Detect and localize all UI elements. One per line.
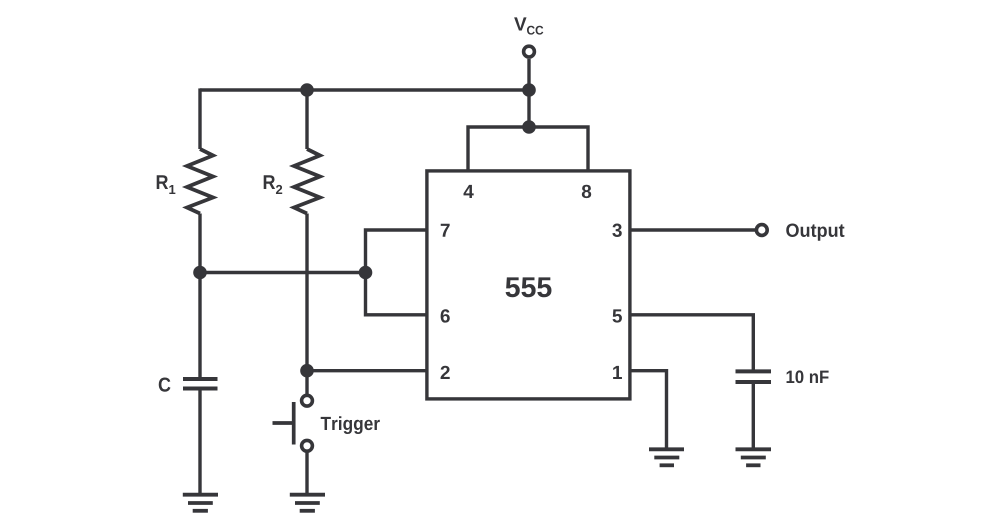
wire C to ground xyxy=(198,391,201,495)
wire node to threshold xyxy=(200,271,366,274)
wire pin3 output xyxy=(630,228,755,231)
junction node threshold xyxy=(359,266,373,280)
wire C2 to ground xyxy=(752,384,755,449)
wire pin7 pin6 loop xyxy=(366,230,427,315)
junction R2 pin2 xyxy=(300,364,314,378)
wire pin 4 / pin 8 strap xyxy=(468,127,588,172)
junction node R1-C xyxy=(193,266,207,280)
pin 1 label xyxy=(613,366,622,379)
ground trigger xyxy=(290,495,325,511)
capacitor C xyxy=(183,379,218,389)
junction pin4-8 strap xyxy=(522,120,536,134)
resistor R1 xyxy=(187,149,213,214)
label 555 xyxy=(506,277,552,297)
wire R2 top lead xyxy=(305,90,308,149)
wire trigger to ground xyxy=(305,452,308,494)
label Output xyxy=(786,224,844,241)
ground C2 xyxy=(736,449,772,465)
pin 2 label xyxy=(441,366,450,379)
pushbutton Trigger terminal top xyxy=(302,395,313,406)
pushbutton Trigger bar xyxy=(292,402,296,445)
ground pin1 xyxy=(649,449,684,465)
label Trigger xyxy=(321,416,380,434)
Vcc terminal xyxy=(524,46,535,57)
ground C xyxy=(183,495,218,511)
resistor R2 xyxy=(294,149,320,214)
wire pin1 to ground xyxy=(630,371,667,450)
label C xyxy=(159,378,171,392)
pin 7 label xyxy=(441,224,450,237)
wire top supply rail xyxy=(200,88,529,91)
capacitor C2 10nF xyxy=(736,371,772,382)
pin 8 label xyxy=(582,185,591,198)
label R2 xyxy=(264,175,283,194)
junction Vcc-rail xyxy=(522,83,536,97)
wire pin2 xyxy=(307,369,427,372)
pin 5 label xyxy=(613,309,622,322)
wire R2 bottom lead xyxy=(305,214,308,395)
pushbutton Trigger actuator xyxy=(273,421,294,425)
wire R1 top lead xyxy=(198,88,201,149)
Vcc label xyxy=(514,17,543,34)
label 10 nF xyxy=(787,370,829,383)
pin 4 label xyxy=(464,185,474,198)
IC U1 555 timer body xyxy=(427,171,630,399)
output terminal xyxy=(756,225,767,236)
pin 3 label xyxy=(612,224,621,237)
pushbutton Trigger terminal bottom xyxy=(302,440,313,451)
wire Vcc vertical xyxy=(527,59,530,127)
wire R1 bottom lead xyxy=(198,214,201,378)
label R1 xyxy=(157,175,176,194)
wire pin5 to bypass cap xyxy=(630,315,753,370)
pin 6 label xyxy=(441,309,450,322)
junction R2 rail xyxy=(300,83,314,97)
